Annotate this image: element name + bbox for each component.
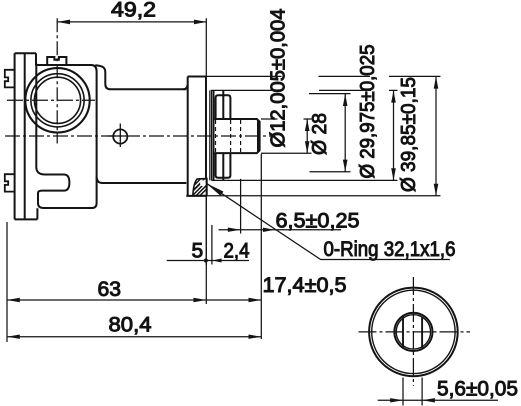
dimension line Ø29,975 (liner): [211, 90, 398, 180]
svg-text:17,4±0,5: 17,4±0,5: [263, 274, 347, 297]
svg-text:6,5±0,25: 6,5±0,25: [276, 210, 360, 233]
dimension 49,2: [57, 18, 207, 304]
svg-text:Ø12,005±0,004: Ø12,005±0,004: [268, 9, 290, 148]
dimension 6,5±0,25: [219, 154, 342, 339]
svg-text:0-Ring 32,1x1,6: 0-Ring 32,1x1,6: [324, 238, 456, 261]
dimension line Ø28 (spline): [309, 94, 351, 172]
dimension 5: [167, 196, 249, 265]
svg-text:80,4: 80,4: [109, 314, 152, 337]
dimension 17,4±0,5: [206, 299, 261, 301]
shaft end view inner rim: [372, 290, 455, 373]
dimension 63: [7, 222, 206, 342]
dimension line Ø12,005 (shaft): [261, 119, 312, 153]
svg-text:Ø 29,975±0,025: Ø 29,975±0,025: [357, 45, 379, 179]
port vertical centerline: [56, 18, 58, 143]
shaft: [214, 119, 260, 153]
flange plate: [186, 77, 206, 196]
mounting plate: [15, 53, 38, 219]
dimension line Ø39,85 (flange pilot): [207, 76, 441, 195]
lower clip: [5, 174, 15, 191]
svg-text:5: 5: [192, 240, 204, 263]
hole marker circle: [113, 129, 127, 143]
hidden spline lines (dashed): [216, 120, 241, 152]
flat extension lines: [403, 378, 422, 406]
shaft end view outer circle: [369, 288, 458, 377]
port horizontal centerline: [7, 99, 95, 101]
svg-text:Ø 39,85±0,15: Ø 39,85±0,15: [398, 77, 420, 192]
svg-text:49,2: 49,2: [111, 0, 156, 22]
liner sleeve: [210, 91, 212, 181]
spline hub lower block: [216, 153, 231, 180]
top tab with notch: [47, 57, 66, 65]
dimension 5,6±0,05: [378, 399, 498, 401]
shaft flats: [403, 316, 422, 349]
svg-text:63: 63: [98, 278, 122, 301]
end view centerlines: [359, 277, 471, 386]
upper clip: [5, 70, 15, 88]
svg-text:5,6±0,05: 5,6±0,05: [437, 377, 518, 400]
shaft end view hub circles: [394, 313, 432, 351]
dimension 80,4: [7, 336, 261, 338]
pump body outline: [36, 53, 188, 208]
spline hub upper block: [214, 91, 231, 181]
svg-text:2,4: 2,4: [224, 240, 250, 263]
svg-text:Ø 28: Ø 28: [309, 113, 331, 155]
main shaft centerline: [5, 135, 273, 137]
port boss circles: [25, 68, 89, 132]
O-ring leader line: [206, 183, 450, 259]
O-ring seal hatched section: [187, 179, 214, 198]
